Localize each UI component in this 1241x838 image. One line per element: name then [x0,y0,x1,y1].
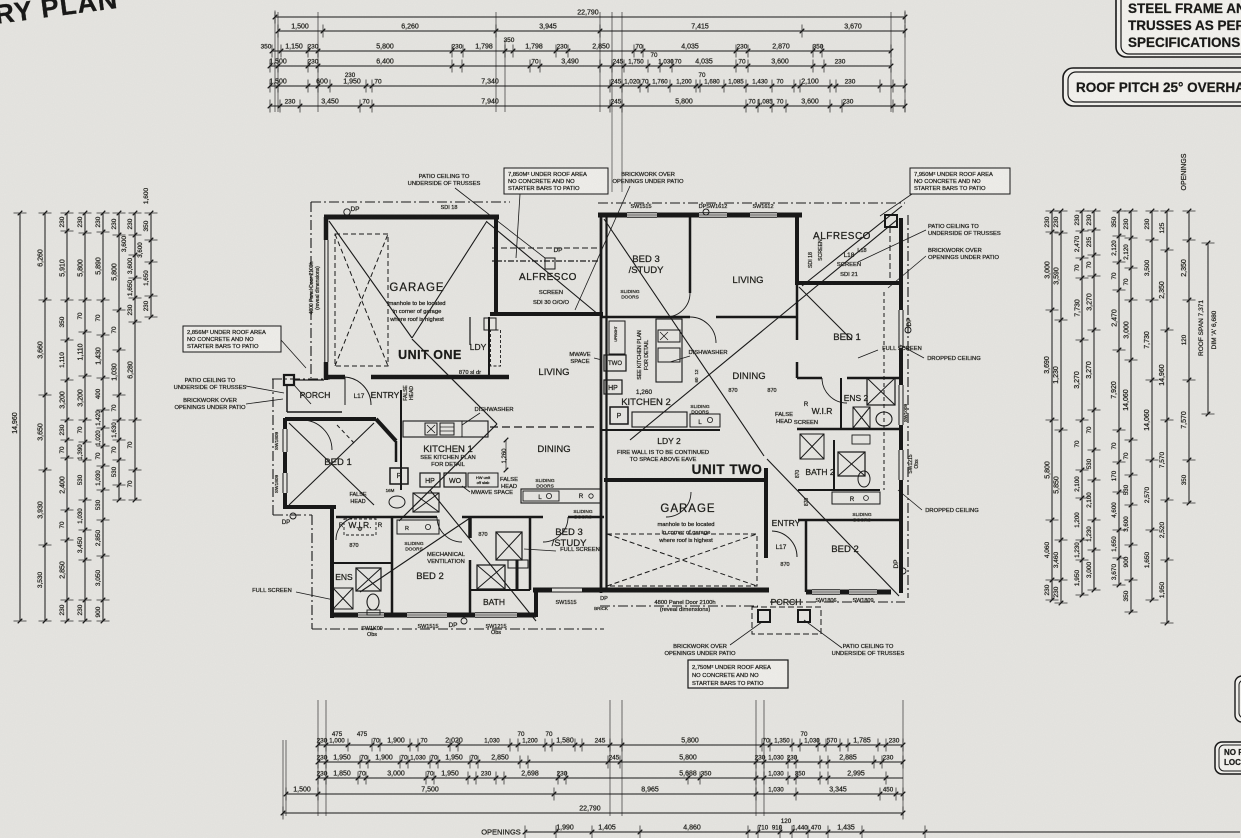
dropped ceiling dash U2 [883,292,885,490]
ldy2 walls [600,429,720,431]
scan speckle noise [0,0,1,1]
bed1 left windows [283,429,288,452]
garage U1 dashed X [335,234,388,366]
top dimension rows [275,16,905,18]
U1 bottom windows [358,613,384,618]
ldy2 cabinet row [632,412,687,427]
bed3 living divider U2 [689,215,692,293]
garage U1 bottom wall [324,375,345,380]
bed1 U2 left wall [796,283,799,340]
alfresco U1 bottom wall [490,312,603,316]
porch hip diagonal [294,385,311,404]
roof diagonal garage U1 left hip [329,221,412,338]
roof overhang outline unit one [311,201,510,203]
wir2 divider [840,378,842,430]
witness verticals top block [274,12,276,112]
under roof area box bottom U2 [688,660,788,688]
roof span line [1207,243,1209,414]
living U2 right hip [630,219,898,440]
living U2 left hip [604,219,764,456]
roof diagonal bed2 bath U1 [430,490,536,621]
ens U1 fixtures [356,568,381,591]
U2 top wall [598,213,802,218]
garage U2 dashed X [607,534,757,586]
U1 bottom wall [330,613,536,618]
U2 right wall [899,218,903,593]
cabinet row dining U1 [521,489,601,503]
ens2 fixtures [867,378,895,405]
P HP WO labels U2 [604,355,626,371]
robe row bed2 U2 [832,492,880,504]
right edge box sliver [1235,676,1241,722]
no roof location box bottom right [1215,742,1241,774]
bath2 walls [833,440,835,490]
ldy wall [488,317,490,375]
roof diagonal ens U1 [360,518,470,592]
bath top wall [470,589,530,591]
alfresco U1 dashed patio lines [492,247,599,249]
right dimension columns [1051,211,1053,600]
roof overhang outline unit two [598,202,905,204]
wc fixtures U1 entry [389,496,405,508]
bed2 left wall [391,517,394,615]
shower U1 bed3 corner [496,532,522,560]
bath2 top wall [797,428,903,431]
note box: steel frame [1116,0,1241,57]
witness verticals bottom block [317,700,319,816]
garage U2 bottom wall [604,588,769,593]
bed1 U2 bottom wall [797,377,822,380]
garage U2 top wall [604,478,766,482]
false head dashed bulkhead U1 [490,426,598,428]
under roof area box left U1 [183,326,281,352]
bed2 U2 walls [798,519,901,522]
wir U1 dashes [344,519,376,535]
under roof area box top U1 [504,168,608,194]
garage U1 top wall [324,215,499,220]
porch U1 [284,375,294,385]
bath2 fixtures [838,452,865,476]
kitchen bench U1 [403,421,488,437]
P HP WO labels U1 [390,468,408,484]
bed1 U2 door arc [666,492,691,517]
note box: roof pitch [1063,68,1241,106]
interior door arcs U2 [690,317,716,343]
bath right wall [529,517,532,590]
bed2 U2 diagonal [767,459,899,596]
entry arc U1 door [345,377,371,403]
entry kitchen wall [400,390,402,490]
alfresco U2 pillar [885,215,897,227]
U1 interior horizontal wall [336,516,437,519]
alfresco U2 bottom / bed1 top [797,281,903,285]
wall robe dashes U1 [491,330,501,366]
garage U1 left wall [324,217,329,240]
left extra column [150,213,152,317]
left dimension columns [19,213,21,621]
porch U2 [758,610,770,622]
bed2 robe U1 [397,520,439,534]
roof diagonal alfresco U1 [487,222,599,315]
kitchen bench U2 [656,319,682,382]
party wall double [600,214,603,593]
ens top wall [330,562,392,564]
bed3 U1 bottom wall [533,588,604,593]
bath left wall [468,517,472,538]
garage U1 right wall [494,217,498,315]
openings dimension row [525,831,1240,833]
roof diagonal garage U1 right hip [412,221,487,338]
interior door arcs U1 [437,517,462,542]
entry arc U2 [772,531,797,557]
roof valley kitchen U1 [412,339,497,424]
living alfresco divider U2 [795,215,799,285]
bed1 U1 hip X [289,423,374,505]
U2 living bottom wall [600,316,690,319]
bed1 U1 walls [283,418,287,509]
lower-left wall [330,507,334,618]
bed1 U2 hip [799,287,852,340]
bath U1 fixtures [477,565,505,589]
garage U2 right wall [764,468,768,558]
under roof area box top U2 [910,168,1010,194]
alfresco U2 corner hip [802,206,902,286]
bottom dimension rows [318,744,903,746]
